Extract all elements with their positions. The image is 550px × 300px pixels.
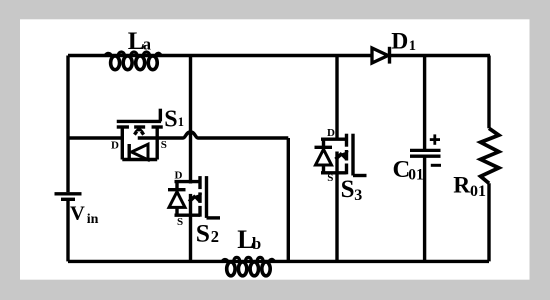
svg-text:D: D <box>111 139 119 151</box>
svg-text:b: b <box>252 234 261 253</box>
svg-text:in: in <box>87 212 99 227</box>
svg-text:V: V <box>70 203 85 225</box>
svg-text:D: D <box>391 28 408 54</box>
svg-text:R: R <box>453 173 471 199</box>
svg-text:S: S <box>327 172 333 184</box>
svg-text:D: D <box>327 127 335 139</box>
svg-text:S: S <box>177 216 183 228</box>
svg-text:D: D <box>175 170 183 182</box>
svg-text:S: S <box>196 218 210 247</box>
svg-text:2: 2 <box>211 227 219 246</box>
svg-text:S: S <box>161 139 167 151</box>
svg-text:S: S <box>341 176 355 203</box>
svg-text:a: a <box>143 35 151 54</box>
svg-text:01: 01 <box>470 183 486 200</box>
svg-text:3: 3 <box>354 187 362 204</box>
svg-text:1: 1 <box>409 38 416 54</box>
svg-text:01: 01 <box>408 167 424 184</box>
svg-text:1: 1 <box>178 115 184 129</box>
svg-text:S: S <box>164 106 177 132</box>
